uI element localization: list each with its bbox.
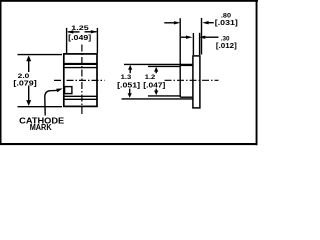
dim 2.0 up arrowhead: [26, 55, 31, 61]
side view body bump top edge: [180, 64, 192, 66]
dim 1.3 lower extension line: [122, 98, 193, 100]
dim 1.25 left arrow: [68, 31, 80, 33]
dim 1.3 upper extension line: [124, 63, 192, 65]
svg-text:[.031]: [.031]: [215, 20, 238, 27]
front view horizontal centerline: [54, 79, 105, 81]
svg-text:1.2: 1.2: [145, 74, 156, 81]
dim .30 left arrow: [181, 36, 188, 38]
cathode mark leader line: [45, 90, 57, 115]
dim 2.0 down arrowhead: [26, 100, 31, 106]
dim 1.3 down arrow: [129, 89, 131, 94]
side view horizontal centerline: [165, 79, 219, 81]
dim .80 left arrow: [164, 22, 176, 24]
svg-text:MARK: MARK: [30, 123, 52, 132]
border frame bottom: [0, 143, 258, 145]
cathode mark leader arrowhead: [56, 88, 62, 92]
dim .30 right arrow: [204, 36, 219, 38]
dim 1.2 lower extension line: [148, 95, 180, 97]
dim .80 right extension line: [201, 18, 203, 55]
dim 1.25 right arrow: [85, 31, 97, 33]
svg-text:1.3: 1.3: [121, 74, 132, 81]
dim 1.25 right extension line: [96, 28, 98, 53]
dim 1.2 upper extension line: [148, 65, 180, 67]
svg-text:2.0: 2.0: [18, 73, 30, 80]
front view bottom terminal band line 2: [64, 98, 97, 100]
border frame right: [256, 0, 258, 145]
dim 1.2 up arrow: [154, 67, 158, 72]
dim .30 middle extension line: [192, 33, 194, 55]
front view top terminal band line 2: [64, 67, 97, 69]
svg-text:.80: .80: [221, 13, 231, 20]
dim 2.0 top extension line: [18, 54, 63, 56]
border frame top: [0, 0, 258, 2]
dim .80 right arrow: [207, 22, 214, 24]
side view end plate rectangle: [193, 56, 200, 108]
side view body bump bottom edge: [180, 96, 192, 98]
svg-text:[.079]: [.079]: [13, 81, 36, 88]
dim 1.3 up arrow: [128, 65, 132, 70]
dim .30 right extension line: [199, 33, 201, 55]
front view top terminal band line 1: [64, 63, 97, 65]
svg-text:[.051]: [.051]: [117, 83, 140, 90]
svg-text:.30: .30: [221, 36, 230, 43]
svg-text:[.049]: [.049]: [68, 35, 91, 42]
dim 2.0 shaft upper: [28, 60, 30, 73]
dim 1.25 left extension line: [66, 28, 68, 53]
side view body bump left edge + dim .80 left extension: [179, 18, 181, 97]
svg-text:[.012]: [.012]: [216, 43, 237, 50]
front view body outline: [64, 54, 97, 107]
front view bottom terminal band line 1: [64, 95, 97, 97]
dim 1.2 down arrow: [155, 89, 157, 92]
svg-text:1.25: 1.25: [71, 25, 89, 32]
svg-text:[.047]: [.047]: [143, 83, 165, 90]
dim 2.0 shaft lower: [28, 86, 30, 102]
dim 2.0 bottom extension line: [18, 106, 63, 108]
front view vertical centerline: [81, 45, 83, 116]
cathode mark box: [65, 87, 72, 94]
border frame left: [0, 0, 2, 145]
